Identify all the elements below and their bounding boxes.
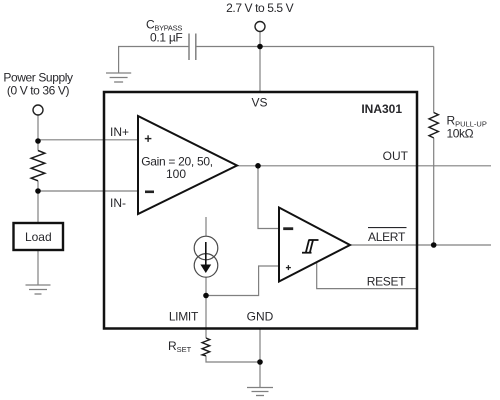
node: supply junction	[257, 44, 263, 50]
op-amp plus sign	[145, 135, 152, 142]
ground (bypass cap)	[106, 73, 131, 82]
wire: ALERT line	[350, 244, 491, 246]
wire: supply rail horizontal (cap to Rpullup)	[196, 46, 434, 48]
op-amp U1	[138, 116, 237, 214]
capacitor C_BYPASS plates	[188, 34, 190, 61]
Load box	[14, 223, 64, 250]
node: LIMIT junction	[203, 293, 209, 299]
IC box INA301	[104, 92, 417, 329]
wire: IN-	[38, 190, 138, 192]
node: OUT junction	[255, 163, 261, 169]
svg-text:RESET: RESET	[367, 275, 406, 289]
terminal: 2.7V supply	[255, 22, 265, 32]
wire: OUT line	[237, 165, 491, 167]
svg-text:VS: VS	[251, 96, 267, 110]
resistor R_SET	[202, 338, 210, 356]
ground (load)	[26, 285, 51, 294]
ground (GND pin)	[247, 388, 273, 396]
svg-text:2.7 V to 5.5 V: 2.7 V to 5.5 V	[226, 1, 294, 15]
svg-text:OUT: OUT	[383, 149, 409, 163]
comparator U2	[279, 208, 350, 282]
wire: power supply terminal down to shunt	[37, 115, 39, 151]
wire: out node down to comparator minus input	[258, 166, 279, 229]
svg-text:LIMIT: LIMIT	[169, 310, 199, 324]
node: IN- junction	[35, 188, 41, 194]
wire: RESET line	[317, 263, 417, 289]
svg-text:Load: Load	[25, 230, 52, 244]
svg-text:Power Supply: Power Supply	[3, 71, 73, 85]
comparator hysteresis symbol	[302, 240, 319, 253]
current source arrow	[205, 242, 207, 266]
wire: supply terminal down to VS pin	[259, 32, 261, 93]
wire: Rset bottom to gnd node	[206, 356, 260, 362]
wire: Load to ground	[37, 250, 39, 285]
node: ALERT junction	[431, 242, 437, 248]
current source I1	[194, 236, 218, 260]
svg-text:IN+: IN+	[110, 125, 129, 139]
wire: current source top stub	[205, 217, 207, 237]
comparator minus sign	[283, 227, 293, 230]
svg-text:INA301: INA301	[361, 102, 402, 116]
svg-text:0.1 µF: 0.1 µF	[150, 31, 182, 45]
wire: down to Rpullup top	[433, 47, 435, 113]
svg-text:IN-: IN-	[110, 196, 126, 210]
wire: cap left to ground	[119, 47, 189, 74]
svg-text:ALERT: ALERT	[368, 230, 406, 244]
wire: GND pin to ground	[259, 329, 261, 388]
terminal: power supply	[33, 105, 43, 115]
wire: current source bottom to limit node	[205, 277, 207, 295]
svg-text:(0 V to 36 V): (0 V to 36 V)	[7, 84, 70, 98]
comparator plus sign	[286, 265, 291, 270]
wire: comparator plus input to limit node	[206, 266, 279, 296]
wire: IN+	[38, 139, 138, 141]
node: GND junction	[257, 359, 263, 365]
resistor: shunt	[31, 151, 45, 181]
resistor R_PULL-UP	[429, 113, 438, 138]
svg-text:100: 100	[166, 167, 186, 181]
op-amp minus sign	[145, 191, 154, 194]
wire: LIMIT pin down to Rset	[205, 296, 207, 339]
wire: shunt bottom to Load	[37, 181, 39, 223]
wire: Rpullup bottom down to ALERT line	[433, 138, 435, 245]
svg-text:10kΩ: 10kΩ	[447, 127, 474, 141]
node: IN+ junction	[35, 138, 41, 144]
svg-text:GND: GND	[247, 310, 274, 324]
